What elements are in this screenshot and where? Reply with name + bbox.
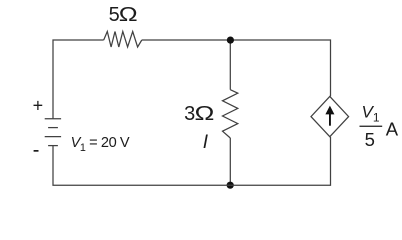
svg-text:A: A [386,118,399,139]
wire: 3Ω resistor to node B [229,138,231,185]
svg-text:V1 = 20 V: V1 = 20 V [71,135,130,154]
label: V1/5 A (controlled source value) [360,103,399,150]
resistor R1 5Ω zigzag [104,32,142,48]
node B (bottom junction dot) [227,182,234,189]
svg-text:5: 5 [365,129,375,150]
svg-text:Ω: Ω [195,102,215,124]
resistor 3Ω zigzag (vertical) [223,90,238,138]
wire: node B to bottom-right corner up to current source bottom [230,137,330,186]
battery V1 (voltage source) [45,119,61,146]
wire: battery - terminal down to bottom-left corner, right to node B [53,146,230,186]
svg-text:I: I [203,132,209,153]
dependent current source U1 (diamond) [311,96,349,136]
wire: battery + terminal up to top-left corner, right to 5Ω resistor [53,40,104,119]
node A (top junction dot) [227,37,234,44]
polarity label: - [34,150,39,152]
wire: node A down to 3Ω resistor [229,40,231,90]
svg-text:+: + [33,95,44,115]
svg-text:Ω: Ω [119,3,138,26]
wire: 5Ω resistor to node A [142,39,231,41]
wire: node A to top-right corner down to current source top [230,40,330,96]
svg-text:V1: V1 [362,103,380,125]
arrow inside current source (pointing up) [325,106,334,126]
